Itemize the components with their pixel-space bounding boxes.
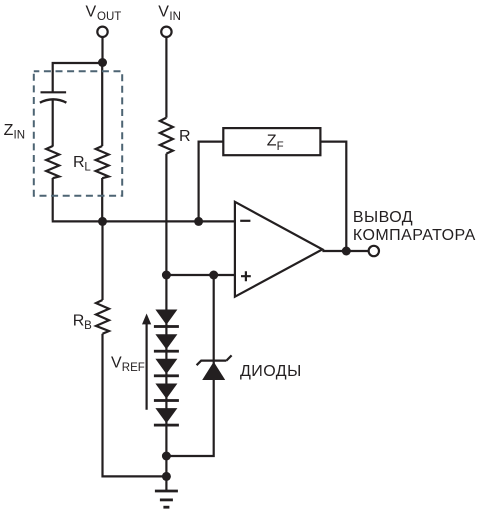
- svg-text:Z: Z: [267, 133, 277, 150]
- wire Z branch bottom to main node line: [52, 178, 54, 220]
- op-amp minus sign: [240, 220, 250, 222]
- terminal V_OUT: [97, 27, 107, 37]
- diode D5: [154, 408, 179, 426]
- V_REF arrow: [142, 314, 151, 410]
- wire R_L branch top: [101, 63, 103, 147]
- junction node ground / R_B return: [162, 472, 171, 481]
- wire feedback from minus node up to Z_F left: [199, 142, 224, 222]
- junction node at V_OUT / R_L / C: [98, 58, 107, 67]
- svg-text:IN: IN: [169, 11, 181, 23]
- junction node feedback / minus input: [194, 217, 203, 226]
- wire V_IN terminal to resistor R: [165, 37, 167, 117]
- svg-text:R: R: [179, 128, 191, 145]
- svg-text:V: V: [158, 3, 169, 20]
- wire main node horizontal to inverting input: [52, 220, 235, 222]
- svg-text:B: B: [84, 320, 92, 332]
- diode D2: [154, 334, 179, 352]
- svg-text:OUT: OUT: [97, 11, 121, 23]
- svg-text:F: F: [277, 141, 284, 153]
- wire capacitor to Z resistor: [52, 101, 54, 147]
- wire op-amp output to terminal: [322, 250, 368, 252]
- svg-text:R: R: [73, 154, 85, 171]
- wire Z_F right down to output node: [320, 142, 346, 251]
- svg-text:КОМПАРАТОРА: КОМПАРАТОРА: [353, 227, 476, 244]
- resistor R: [160, 118, 173, 154]
- ground: [155, 491, 178, 507]
- svg-text:R: R: [73, 312, 85, 329]
- junction node plus input / diode stack: [162, 271, 171, 280]
- op-amp U1 (comparator): [235, 202, 323, 297]
- wire R_B bottom to ground node: [103, 334, 167, 477]
- wire R bottom through plus node into diode stack and ground: [165, 154, 167, 491]
- wire zener branch: [166, 275, 213, 456]
- resistor R_L: [96, 146, 109, 178]
- Z_IN dashed box: [34, 71, 122, 195]
- resistor R_B: [96, 300, 109, 334]
- junction node plus input / zener branch: [209, 271, 218, 280]
- wire plus input horizontal: [166, 274, 235, 276]
- svg-text:V: V: [86, 3, 97, 20]
- wire V_OUT terminal to junction: [101, 37, 103, 62]
- capacitor C (in Z_IN): [40, 92, 67, 102]
- terminal V_IN: [161, 27, 171, 37]
- diode D1: [154, 310, 179, 328]
- Z_F feedback box: [223, 128, 320, 155]
- wire junction to capacitor branch: [53, 63, 103, 92]
- diode D3: [154, 359, 179, 377]
- op-amp plus sign: [241, 271, 251, 281]
- svg-text:ВЫВОД: ВЫВОД: [353, 209, 413, 226]
- wire R_B branch top: [101, 221, 103, 300]
- junction node output / feedback: [342, 247, 351, 256]
- zener diode: [197, 355, 232, 380]
- svg-text:Z: Z: [4, 122, 14, 139]
- svg-text:REF: REF: [122, 362, 145, 374]
- svg-text:ДИОДЫ: ДИОДЫ: [240, 363, 302, 380]
- terminal comparator output: [369, 246, 379, 256]
- junction node Z_IN bottom / R_B: [98, 217, 107, 226]
- svg-text:V: V: [111, 355, 122, 372]
- junction node diode stack / zener return: [162, 452, 171, 461]
- resistor Z (unlabeled, in Z_IN box): [46, 146, 59, 178]
- diode D4: [154, 384, 179, 402]
- wire R_L bottom to node: [101, 178, 103, 221]
- svg-text:L: L: [84, 162, 91, 174]
- svg-text:IN: IN: [14, 130, 26, 142]
